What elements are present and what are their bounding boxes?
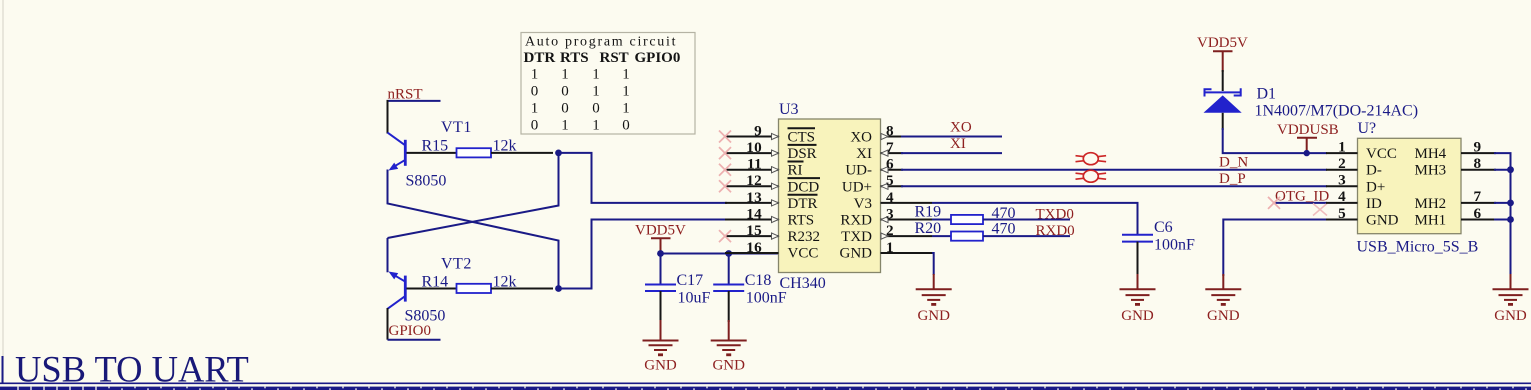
wire R15 to node A — [491, 152, 553, 154]
wire nRST to VT1 collector — [387, 100, 389, 134]
svg-text:DSR: DSR — [788, 146, 817, 162]
pin 8 XO — [850, 122, 903, 145]
svg-text:RXD: RXD — [840, 213, 872, 229]
no-connect mark pin 9 — [719, 131, 731, 143]
svg-text:V3: V3 — [854, 196, 872, 212]
resistor R15 12k — [422, 138, 517, 158]
power symbol VDD5V (decoupling rail) — [635, 223, 686, 254]
wire C17 to ground — [660, 291, 662, 322]
svg-text:CH340: CH340 — [780, 275, 826, 292]
net label TXD0 — [983, 206, 1074, 222]
wire VDD5V rail to CH340 VCC pin 16 — [661, 253, 780, 255]
pin 3 RXD — [840, 205, 932, 228]
pin 12 DCD — [725, 172, 820, 195]
wire node A down to crossover — [388, 151, 559, 238]
svg-text:TXD: TXD — [841, 229, 872, 245]
svg-text:470: 470 — [992, 221, 1016, 238]
svg-text:VDD5V: VDD5V — [1197, 35, 1248, 51]
svg-text:100nF: 100nF — [746, 290, 787, 307]
svg-text:RTS: RTS — [788, 213, 815, 229]
svg-text:16: 16 — [746, 239, 762, 256]
svg-text:D1: D1 — [1257, 86, 1277, 103]
pin 6 MH1 — [1415, 205, 1497, 229]
wire D1 to USB VCC pin 1 — [1223, 128, 1327, 153]
svg-text:GPIO0: GPIO0 — [635, 50, 681, 66]
wire C6 to ground — [1137, 242, 1139, 276]
wire R14 to node B — [491, 288, 553, 290]
svg-text:XO: XO — [950, 120, 972, 136]
svg-text:C17: C17 — [677, 272, 704, 289]
svg-text:0: 0 — [561, 84, 569, 100]
svg-text:Auto program circuit: Auto program circuit — [525, 35, 677, 50]
svg-text:C18: C18 — [745, 272, 772, 289]
svg-text:MH2: MH2 — [1415, 196, 1447, 212]
svg-text:RTS: RTS — [560, 50, 589, 66]
svg-text:C6: C6 — [1154, 219, 1173, 236]
svg-text:1: 1 — [592, 84, 600, 100]
svg-text:R20: R20 — [915, 220, 942, 237]
svg-text:5: 5 — [1338, 205, 1346, 222]
svg-text:10uF: 10uF — [678, 290, 711, 307]
svg-text:MH4: MH4 — [1415, 146, 1447, 162]
svg-text:1: 1 — [531, 67, 539, 83]
svg-text:14: 14 — [746, 205, 762, 222]
svg-text:USB_Micro_5S_B: USB_Micro_5S_B — [1357, 239, 1479, 256]
svg-text:U3: U3 — [779, 101, 799, 118]
power symbol VDDUSB — [1277, 122, 1339, 156]
svg-text:D_N: D_N — [1219, 155, 1248, 171]
svg-text:1: 1 — [622, 101, 630, 117]
svg-text:8: 8 — [886, 122, 894, 139]
wire node A to CH340 DTR pin 13 — [556, 153, 727, 203]
svg-text:D_P: D_P — [1219, 171, 1246, 187]
pin 9 MH4 — [1415, 138, 1497, 162]
svg-text:7: 7 — [886, 139, 894, 156]
svg-text:10: 10 — [746, 139, 762, 156]
svg-text:VT1: VT1 — [441, 119, 472, 136]
wire node B to CH340 RTS pin 14 — [556, 220, 727, 289]
junction MH3 — [1507, 166, 1514, 173]
svg-text:2: 2 — [886, 222, 894, 239]
svg-text:GPIO0: GPIO0 — [389, 323, 432, 339]
pin 6 UD- — [845, 156, 903, 179]
pin 5 UD+ — [842, 172, 903, 195]
svg-text:XI: XI — [856, 146, 872, 162]
svg-text:VDD5V: VDD5V — [635, 223, 686, 239]
node B junction — [555, 285, 562, 292]
pin 4 V3 — [854, 189, 932, 212]
svg-text:TXD0: TXD0 — [1036, 206, 1074, 222]
pin 2 D- — [1326, 155, 1382, 179]
svg-text:100nF: 100nF — [1154, 237, 1195, 254]
svg-text:1: 1 — [561, 67, 569, 83]
svg-text:1: 1 — [592, 67, 600, 83]
ground below C17 — [643, 341, 679, 355]
pin 3 D+ — [1326, 172, 1385, 196]
svg-text:D-: D- — [1366, 163, 1382, 179]
svg-text:OTG_ID: OTG_ID — [1275, 189, 1329, 205]
wire UD- to USB D- — [901, 169, 1327, 171]
svg-text:GND: GND — [1494, 308, 1527, 324]
wire V3 to C6 — [932, 203, 1138, 235]
svg-text:0: 0 — [561, 101, 569, 117]
pin 9 CTS — [725, 122, 815, 145]
svg-text:12: 12 — [746, 172, 762, 189]
junction MH1 — [1507, 216, 1514, 223]
no-connect mark OTG_ID — [1268, 197, 1280, 209]
pin 2 TXD — [841, 222, 932, 245]
ground below mounting holes — [1493, 289, 1529, 304]
svg-text:GND: GND — [1366, 213, 1399, 229]
svg-text:4: 4 — [1338, 188, 1346, 205]
svg-text:6: 6 — [886, 156, 894, 173]
wire VT2 base — [407, 288, 457, 290]
pin 13 DTR — [725, 189, 818, 212]
net label OTG_ID — [1275, 189, 1329, 205]
svg-text:R15: R15 — [422, 138, 449, 155]
wire VT1 emitter to crossover to node B — [388, 170, 559, 291]
pin 10 DSR — [725, 139, 817, 162]
resistor R14 12k — [422, 274, 517, 294]
power symbol VDD5V (USB rail) — [1197, 35, 1248, 72]
transistor VT2 S8050 — [388, 272, 406, 309]
svg-text:9: 9 — [1474, 138, 1482, 155]
wire USB GND pin 5 to ground — [1223, 220, 1327, 277]
svg-text:9: 9 — [754, 122, 762, 139]
svg-text:R232: R232 — [788, 229, 821, 245]
no-connect mark pin 15 — [719, 230, 731, 242]
svg-text:0: 0 — [531, 84, 539, 100]
ground below CH340 — [916, 289, 952, 304]
wire UD+ to USB D+ — [901, 185, 1327, 187]
svg-text:3: 3 — [886, 205, 894, 222]
svg-text:VT2: VT2 — [441, 256, 472, 273]
wire VT1 base — [407, 152, 457, 154]
pin 15 R232 — [725, 222, 820, 245]
wire C18 to ground — [728, 291, 730, 322]
svg-text:VCC: VCC — [1366, 146, 1397, 162]
capacitor C18 100nF — [713, 254, 787, 307]
svg-text:0: 0 — [622, 118, 630, 134]
svg-text:D+: D+ — [1366, 179, 1385, 195]
ground below USB pin 5 — [1205, 289, 1241, 304]
svg-text:8: 8 — [1474, 155, 1482, 172]
svg-text:GND: GND — [1121, 308, 1154, 324]
pin 7 XI — [856, 139, 903, 162]
svg-text:4: 4 — [886, 189, 894, 206]
svg-text:R19: R19 — [915, 204, 942, 221]
svg-text:GND: GND — [917, 308, 950, 324]
svg-text:1N4007/M7(DO-214AC): 1N4007/M7(DO-214AC) — [1255, 103, 1419, 120]
svg-text:1: 1 — [531, 101, 539, 117]
svg-text:UD+: UD+ — [842, 179, 872, 195]
svg-text:GND: GND — [1207, 308, 1240, 324]
svg-text:MH1: MH1 — [1415, 213, 1447, 229]
svg-text:RXD0: RXD0 — [1036, 223, 1075, 239]
wire MH pins to ground — [1494, 153, 1511, 276]
svg-text:5: 5 — [886, 172, 894, 189]
svg-text:DTR: DTR — [788, 196, 818, 212]
no-connect mark pin 12 — [719, 180, 731, 192]
no-connect mark pin 10 — [719, 147, 731, 159]
svg-text:3: 3 — [1338, 172, 1346, 189]
svg-text:13: 13 — [746, 189, 762, 206]
no-connect mark pin 11 — [719, 164, 731, 176]
svg-text:UD-: UD- — [845, 163, 872, 179]
junction VDD5V / C17 — [657, 250, 664, 257]
net label RXD0 — [983, 223, 1075, 239]
svg-text:1: 1 — [622, 67, 630, 83]
diode D1 1N4007 — [1204, 70, 1419, 130]
pin 16 VCC — [725, 239, 818, 262]
svg-text:XI: XI — [950, 136, 966, 152]
svg-text:RST: RST — [600, 50, 629, 66]
ground below C6 — [1120, 289, 1156, 304]
pin 14 RTS — [725, 205, 814, 228]
svg-text:1: 1 — [886, 239, 894, 256]
svg-text:GND: GND — [840, 246, 873, 262]
net label GPIO0 — [388, 323, 441, 340]
pin 8 MH3 — [1415, 155, 1497, 179]
resistor R19 470 — [915, 204, 1016, 225]
capacitor C6 100nF — [1122, 219, 1195, 254]
svg-text:6: 6 — [1474, 205, 1482, 222]
svg-text:15: 15 — [746, 222, 762, 239]
pin 5 GND — [1326, 205, 1399, 229]
svg-text:GND: GND — [644, 358, 677, 374]
wire VT2 collector to GPIO0 — [387, 308, 389, 340]
wire CH340 GND pin to ground — [932, 253, 934, 275]
pin 1 GND — [840, 239, 934, 262]
svg-text:1: 1 — [622, 84, 630, 100]
resistor R20 470 — [915, 220, 1016, 241]
svg-text:VCC: VCC — [788, 246, 819, 262]
ground below C18 — [711, 341, 747, 355]
transistor VT1 S8050 — [388, 133, 406, 171]
svg-text:ID: ID — [1366, 196, 1382, 212]
pin 4 ID — [1326, 188, 1382, 212]
capacitor C17 10uF — [645, 254, 711, 307]
svg-text:MH3: MH3 — [1415, 163, 1447, 179]
svg-text:DCD: DCD — [788, 179, 820, 195]
svg-text:CTS: CTS — [788, 130, 816, 146]
junction MH2 — [1507, 200, 1514, 207]
differential pair marker on D_P — [1076, 170, 1107, 182]
net label XO — [901, 120, 1002, 137]
wire crossover to VT2 emitter — [387, 238, 389, 272]
svg-text:1: 1 — [561, 118, 569, 134]
svg-text:U?: U? — [1358, 120, 1377, 137]
svg-text:S8050: S8050 — [406, 173, 447, 190]
svg-text:2: 2 — [1338, 155, 1346, 172]
svg-text:RI: RI — [788, 163, 803, 179]
junction C18 — [725, 250, 732, 257]
svg-text:1: 1 — [592, 118, 600, 134]
net label XI — [901, 136, 1002, 153]
svg-text:R14: R14 — [422, 274, 449, 291]
svg-text:XO: XO — [850, 130, 872, 146]
svg-text:VDDUSB: VDDUSB — [1277, 122, 1339, 138]
pin 1 VCC — [1326, 138, 1397, 162]
note: auto program circuit truth table — [521, 33, 695, 135]
net label nRST — [387, 87, 441, 103]
svg-text:0: 0 — [592, 101, 600, 117]
pin 7 MH2 — [1415, 188, 1497, 212]
svg-text:GND: GND — [712, 358, 745, 374]
svg-text:S8050: S8050 — [405, 308, 446, 325]
svg-text:DTR: DTR — [524, 50, 556, 66]
node A junction — [555, 150, 562, 157]
svg-text:1: 1 — [1338, 138, 1346, 155]
svg-text:USB TO UART: USB TO UART — [15, 349, 249, 390]
svg-text:7: 7 — [1474, 188, 1482, 205]
svg-text:0: 0 — [531, 118, 539, 134]
differential pair marker on D_N — [1076, 153, 1107, 165]
svg-text:11: 11 — [747, 156, 762, 173]
pin 11 RI — [725, 156, 804, 179]
